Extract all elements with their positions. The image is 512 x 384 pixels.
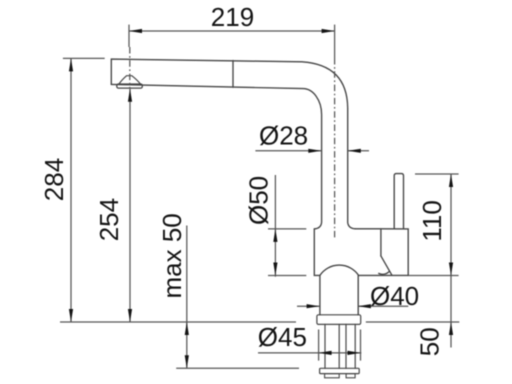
svg-text:Ø28: Ø28 <box>259 120 308 150</box>
dim 219 right extension <box>334 25 336 58</box>
lever wedge diagonal <box>381 256 392 275</box>
dim O50 top extension <box>268 228 306 230</box>
nut tab right <box>346 374 355 378</box>
arrowhead max50 bottom <box>185 355 189 368</box>
arrowhead 110 top <box>449 174 453 187</box>
svg-text:Ø45: Ø45 <box>258 322 307 352</box>
arrowhead O50 top <box>273 229 277 242</box>
arrowhead O28 left <box>308 149 321 153</box>
svg-text:50: 50 <box>415 327 445 356</box>
svg-text:Ø40: Ø40 <box>370 281 419 311</box>
rod line 4 <box>354 324 356 368</box>
countertop underside line <box>176 367 299 369</box>
aerator bar <box>117 84 143 88</box>
cartridge divider <box>380 229 382 256</box>
faucet spout inner outline <box>111 84 321 229</box>
dim 110-50 line <box>450 174 452 348</box>
body dome transition <box>320 265 359 275</box>
dim O40 left line <box>297 305 320 307</box>
dim O45 right extension <box>360 330 362 361</box>
arrowhead 284 bottom <box>69 309 73 322</box>
dim O28 right line <box>348 150 369 152</box>
arrowhead O50 bottom <box>273 263 277 276</box>
flange <box>317 315 361 325</box>
rod line 3 <box>345 324 347 368</box>
rod line 2 <box>338 324 340 368</box>
dim 219 left extension <box>128 25 130 47</box>
dim O45 line <box>258 352 361 354</box>
dim O28 left line <box>255 150 321 152</box>
dim 110 bottom extension <box>409 275 459 277</box>
dim 284 extension <box>63 57 105 59</box>
shank right edge <box>357 275 359 314</box>
lever handle <box>394 174 403 229</box>
arrowhead O45 left <box>319 351 332 355</box>
faucet spout outer outline <box>111 59 355 229</box>
dim 254 line <box>129 89 131 322</box>
arrowhead O40 left <box>307 304 320 308</box>
dim max50 line <box>186 226 188 369</box>
arrowhead 110 bottom <box>449 263 453 276</box>
svg-text:219: 219 <box>211 2 254 32</box>
mounting nut <box>320 368 360 373</box>
countertop surface line <box>60 321 459 323</box>
dim 284 line <box>70 58 72 322</box>
spout divider line <box>232 61 234 88</box>
arrowhead 254 bottom <box>128 309 132 322</box>
lever wedge arc <box>379 271 390 274</box>
nut tab left <box>325 374 340 378</box>
arrowhead O45 right <box>348 351 361 355</box>
svg-text:Ø50: Ø50 <box>243 176 273 225</box>
aerator dome <box>119 76 140 84</box>
arrowhead 50 top <box>449 322 453 335</box>
dim O45 left extension <box>318 330 320 361</box>
dim O40 right line <box>358 305 408 307</box>
svg-text:284: 284 <box>39 158 69 201</box>
svg-text:max 50: max 50 <box>157 213 187 298</box>
pipe centerline <box>334 58 336 240</box>
body outline <box>314 229 408 276</box>
arrowhead 284 top <box>69 58 73 71</box>
arrowhead max50 top <box>185 322 189 335</box>
shank left edge <box>319 275 321 314</box>
svg-text:254: 254 <box>94 198 124 241</box>
aerator centerline <box>129 47 131 88</box>
dim 110 top extension <box>415 173 459 175</box>
arrowhead O28 right <box>348 149 361 153</box>
arrowhead 219 left <box>129 29 142 33</box>
rod line 1 <box>324 324 326 368</box>
dim O50 line <box>274 175 276 277</box>
arrowhead 219 right <box>322 29 335 33</box>
dim 219 line <box>129 30 335 32</box>
arrowhead 254 top <box>128 89 132 102</box>
svg-text:110: 110 <box>417 200 447 241</box>
arrowhead O40 right <box>358 304 371 308</box>
dim O50 bottom extension <box>268 275 306 277</box>
